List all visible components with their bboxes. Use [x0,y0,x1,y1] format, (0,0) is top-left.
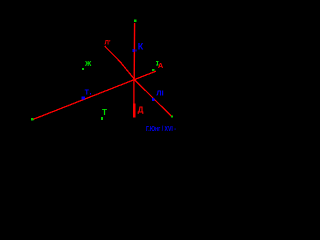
wire: long red line from lower-left green dot through center to upper-right [33,71,156,119]
svg-text:Т: Т [85,89,90,96]
node: standalone green dot left-middle [82,68,84,70]
label: green І near upper-right dot [156,61,159,62]
svg-text:А: А [158,61,164,70]
node: blue marker on down-right ray (XI) [152,98,155,101]
node: green dot top of vertical line [134,20,137,23]
node: thick red bar at bottom of downward line [133,104,136,118]
node: green dot end of down-right ray [171,116,173,118]
svg-text:ЛІ: ЛІ [156,89,163,98]
wire: vertical red line downward from center [133,79,135,104]
wire: red ray down-right from center to lower-right green dot [134,79,172,117]
label: blue dot after Т [90,93,91,94]
node: green dot lower-left end of long line [31,118,34,121]
node: green dot near upper-right end of long line [152,69,154,71]
svg-text:К: К [138,42,144,52]
node: standalone green dot bottom-middle [101,117,103,120]
svg-text:Г.Юнг / ХVІ -: Г.Юнг / ХVІ - [146,126,176,133]
node: blue marker on long line (T) [82,97,85,100]
svg-text:Л’: Л’ [105,40,111,47]
svg-text:Д: Д [138,106,144,115]
svg-text:Ж: Ж [84,61,92,68]
wire: vertical red line upward from center to top green dot [133,23,135,79]
svg-text:Т: Т [102,108,107,117]
node: blue marker on vertical line (K) [133,49,135,52]
wire: red ray up-left from center to label tip [105,46,134,78]
